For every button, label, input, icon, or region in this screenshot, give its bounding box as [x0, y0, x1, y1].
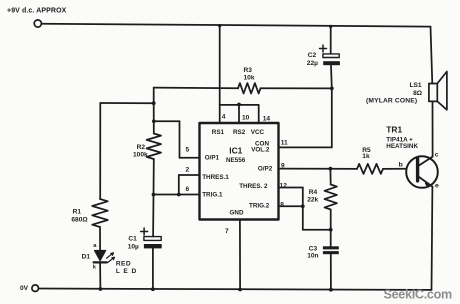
svg-text:14: 14	[263, 115, 271, 122]
wire R5 to base	[383, 168, 406, 170]
0V terminal	[32, 285, 39, 292]
wire R1 top lead	[99, 103, 101, 199]
node pin5/R2	[152, 119, 156, 123]
svg-text:9: 9	[281, 163, 285, 170]
wire pin 10 stub	[238, 105, 240, 123]
svg-text:k: k	[93, 264, 97, 270]
wire R2 bottom lead	[153, 159, 155, 195]
wire bottom rail	[39, 289, 432, 290]
wire pins 12-8 to R4/C3 node	[303, 229, 331, 231]
wire C1 bottom lead	[152, 248, 154, 289]
wire R1 to D1	[99, 227, 101, 250]
wire control node down to pin 11	[331, 88, 333, 147]
svg-text:R4: R4	[309, 189, 318, 196]
D1 emission arrow 1	[107, 253, 114, 258]
LS1 cone	[437, 72, 447, 110]
svg-text:2: 2	[186, 166, 190, 173]
svg-text:100k: 100k	[133, 151, 148, 158]
wire to R1 branch	[100, 102, 153, 104]
TR1 emitter stroke	[419, 177, 433, 187]
svg-text:O/P1: O/P1	[205, 155, 220, 162]
node rail/C3	[329, 288, 333, 292]
svg-text:8: 8	[280, 202, 284, 209]
capacitor C1	[128, 228, 162, 290]
wire R3 right lead	[261, 87, 332, 89]
wire pin 8 stub	[279, 205, 303, 207]
node R3/C2/pin11	[330, 87, 334, 91]
svg-text:b: b	[399, 162, 403, 169]
svg-text:D1: D1	[82, 254, 91, 261]
wire R4 top lead	[329, 169, 331, 185]
node rail/pin7	[238, 288, 242, 292]
svg-text:10µ: 10µ	[128, 244, 139, 251]
C3 top plate	[323, 246, 339, 249]
node R2/C1/pin6	[152, 193, 156, 197]
svg-text:c: c	[435, 151, 439, 158]
svg-text:RED: RED	[116, 261, 131, 268]
wire pin 11 stub	[279, 146, 332, 148]
+9V terminal	[34, 20, 41, 27]
node pin2/pin6	[177, 193, 181, 197]
wire C3 bottom lead	[330, 254, 332, 290]
transistor TR1	[386, 125, 439, 190]
svg-text:NE556: NE556	[226, 157, 246, 164]
TR1 circle	[406, 156, 438, 188]
svg-text:10n: 10n	[307, 253, 318, 260]
C1 top plate (hollow)	[144, 237, 161, 241]
node C2/rail	[329, 25, 332, 28]
node pin8/pin12	[301, 204, 305, 208]
D1 emission arrow 2	[108, 257, 115, 262]
svg-text:TRIG.1: TRIG.1	[202, 192, 223, 199]
wire R5 left lead	[330, 168, 357, 170]
svg-text:22µ: 22µ	[307, 60, 318, 67]
wire pin 5 to R2 lead	[154, 120, 180, 122]
C2 bottom plate (solid)	[323, 61, 340, 65]
wire D1 cathode lead	[99, 262, 101, 289]
wire top pin bus	[220, 104, 259, 106]
wire output node jog down	[153, 88, 155, 104]
resistor R5	[357, 164, 383, 174]
wire R2 top lead	[153, 103, 155, 133]
svg-text:C2: C2	[308, 52, 317, 59]
svg-text:+9V d.c. APPROX: +9V d.c. APPROX	[7, 8, 67, 15]
svg-text:5: 5	[186, 146, 190, 153]
svg-text:C3: C3	[309, 245, 318, 252]
wire pin 5 stub	[180, 157, 200, 159]
wire pin 2 stub	[179, 174, 200, 176]
C2 top plate (hollow)	[323, 54, 339, 58]
svg-text:10k: 10k	[244, 75, 255, 82]
wire pin 12 drop	[302, 188, 304, 230]
svg-text:R1: R1	[73, 208, 82, 215]
svg-text:a: a	[93, 243, 97, 249]
D1 triangle	[94, 250, 105, 261]
node pin9/R5/R4	[329, 167, 333, 171]
svg-text:12: 12	[280, 182, 288, 189]
LS1 frame	[429, 84, 437, 102]
wire pin 2 drop	[178, 175, 180, 195]
TR1 emitter arrowhead	[425, 183, 429, 186]
wire C2 top lead	[330, 26, 332, 53]
resistor R4	[325, 185, 337, 210]
svg-text:7: 7	[225, 228, 229, 235]
svg-text:VOL.2: VOL.2	[251, 146, 270, 153]
svg-text:4: 4	[222, 113, 226, 120]
wire emitter to bottom rail	[431, 187, 434, 290]
svg-text:C1: C1	[128, 236, 137, 243]
svg-text:R3: R3	[244, 67, 253, 74]
TR1 collector stroke	[419, 157, 433, 166]
speaker LS1	[366, 27, 447, 110]
C3 bottom plate	[323, 251, 339, 254]
wire pin 7 GND drop	[239, 220, 241, 290]
LED D1	[82, 243, 138, 289]
wire +9V riser to IC top pins	[219, 25, 221, 123]
svg-text:6: 6	[186, 186, 190, 193]
svg-text:RS2: RS2	[233, 129, 246, 136]
node bus/pin10	[237, 103, 241, 107]
wire pin 5 riser	[179, 121, 181, 158]
svg-text:SeekIC.com: SeekIC.com	[384, 288, 453, 302]
TR1 base bar	[416, 159, 419, 181]
wire collector to speaker	[432, 102, 434, 157]
node output junction	[152, 101, 156, 105]
capacitor C3	[307, 245, 339, 289]
resistor R3	[238, 83, 261, 93]
wire pin 6 stub	[154, 194, 200, 196]
wire pin 14 stub	[258, 105, 260, 123]
resistor R2	[147, 134, 161, 160]
wire R4 bottom lead	[330, 210, 332, 247]
node rail/D1	[99, 287, 103, 291]
svg-text:R2: R2	[137, 144, 146, 151]
svg-text:TR1: TR1	[386, 125, 402, 135]
wire speaker top lead	[431, 27, 433, 84]
wire C1 top lead	[152, 195, 154, 237]
wire pin 12 stub	[279, 187, 303, 189]
svg-text:e: e	[435, 183, 439, 190]
svg-text:THRES.1: THRES.1	[202, 174, 229, 181]
op IC1 NE556 box	[200, 123, 279, 220]
svg-text:LS1: LS1	[410, 82, 422, 89]
svg-text:680Ω: 680Ω	[71, 217, 88, 224]
svg-text:RS1: RS1	[212, 129, 225, 136]
svg-text:11: 11	[281, 139, 288, 146]
wire output node: R3 feed horizontal	[154, 87, 238, 90]
resistor R1	[92, 199, 108, 227]
capacitor C2	[307, 25, 340, 89]
svg-text:0V: 0V	[20, 285, 29, 292]
svg-text:L E D: L E D	[116, 268, 137, 275]
svg-text:(MYLAR CONE): (MYLAR CONE)	[366, 98, 417, 105]
wire top rail	[42, 24, 431, 27]
svg-text:VCC: VCC	[251, 129, 265, 136]
svg-text:10: 10	[242, 115, 250, 122]
node riser/rail	[218, 24, 221, 27]
svg-text:THRES. 2: THRES. 2	[239, 183, 268, 190]
svg-text:1k: 1k	[362, 153, 370, 160]
svg-text:O/P2: O/P2	[258, 165, 273, 172]
D1 cathode bar	[94, 261, 107, 263]
wire pin 9 stub	[279, 168, 331, 170]
wire C2 bottom lead	[330, 66, 333, 89]
svg-text:GND: GND	[230, 209, 244, 216]
svg-text:TRIG.2: TRIG.2	[249, 202, 270, 209]
node rail/C1	[151, 287, 155, 291]
C1 bottom plate (solid)	[144, 244, 162, 248]
C1 plus sign	[141, 228, 148, 235]
svg-text:IC1: IC1	[229, 145, 242, 155]
svg-text:22k: 22k	[307, 196, 318, 203]
svg-text:8Ω: 8Ω	[413, 90, 423, 97]
svg-text:HEATSINK: HEATSINK	[386, 143, 418, 150]
node R4/C3/pins	[329, 228, 333, 232]
C2 plus sign	[320, 45, 327, 52]
